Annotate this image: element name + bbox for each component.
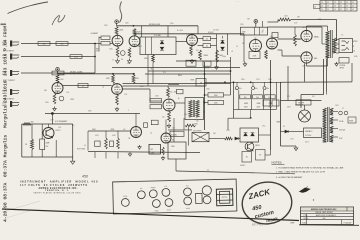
pen stroke above V1: [120, 2, 122, 23]
wire rect top: [304, 105, 306, 110]
svg-text:........: ........: [236, 1, 240, 3]
wire ch1 input top: [21, 43, 95, 45]
svg-text:VOL: VOL: [96, 51, 99, 53]
pen speck: [313, 199, 314, 200]
triode V7 driver: [250, 40, 262, 52]
wire mixer rail A: [204, 62, 206, 130]
ground G5: [168, 124, 170, 126]
capacitor C4 coupling: [203, 44, 211, 48]
resistor R24 grid upper: [294, 35, 297, 47]
resistor R20 plate V5: [167, 88, 170, 98]
wire power ground run: [281, 145, 297, 147]
svg-text:40+: 40+: [267, 88, 270, 90]
wire heater right: [72, 124, 74, 159]
svg-text:2. WALL C AND RESISTOR VALUES: 2. WALL C AND RESISTOR VALUES TOL 10% 1/…: [276, 170, 325, 173]
wire filter drop: [250, 110, 252, 118]
component box DI: [170, 131, 184, 136]
resistor R5b grid lower: [101, 42, 110, 46]
capacitor C1 bypass: [121, 51, 126, 56]
svg-text:2.7: 2.7: [112, 60, 114, 62]
triode V1b: [129, 36, 140, 47]
svg-text:VOL: VOL: [186, 185, 189, 187]
resistor R12 tone: [216, 50, 219, 62]
wire zener to rail: [259, 134, 271, 136]
resistor R41 cathode V6b: [162, 147, 164, 155]
svg-text:TITLE: TITLE: [304, 215, 308, 217]
triode V2: [187, 35, 198, 46]
wire fs vertical: [188, 127, 190, 145]
resistor R14 plate V4a: [112, 75, 115, 84]
svg-text:AMPLIFIER SCHEMATIC: AMPLIFIER SCHEMATIC: [316, 214, 337, 217]
wire mix row 3: [123, 83, 231, 85]
ground bus ch1: [112, 67, 240, 69]
svg-text:28: 28: [327, 9, 329, 11]
triode V3: [52, 83, 63, 94]
svg-text:1MEG: 1MEG: [204, 55, 209, 57]
svg-text:1/2 6SL7: 1/2 6SL7: [213, 30, 219, 32]
svg-text:FOOT SW: FOOT SW: [77, 149, 85, 151]
wire trem feed: [168, 129, 192, 131]
rectifier V11 GZ34: [299, 110, 311, 122]
voltage table top right: [320, 1, 357, 12]
wire mix row 4: [123, 85, 205, 87]
resistor R10 cathode V2: [190, 46, 193, 56]
svg-text:28: 28: [327, 6, 329, 8]
pen scribble top-left: [8, 2, 49, 14]
component box aux1: [263, 100, 270, 106]
wire ch1 input inst: [21, 72, 95, 74]
wire B+ feed: [205, 81, 281, 83]
svg-text:28: 28: [352, 9, 354, 11]
diode CR2: [160, 47, 164, 50]
component box driver row: [241, 27, 268, 35]
svg-text:1. VOLTAGES READ WITH A VTVM T: 1. VOLTAGES READ WITH A VTVM TO GROUND, …: [276, 166, 344, 169]
svg-text:243 1016 P.04: 243 1016 P.04: [2, 39, 8, 76]
wire grid lower 7591: [278, 49, 283, 51]
resistor R22 mixer: [208, 93, 224, 97]
ground G12b: [139, 145, 141, 147]
svg-text:2N109: 2N109: [255, 145, 260, 147]
resistor R13 plate V3: [56, 75, 59, 83]
box intensity pot: [168, 142, 186, 159]
resistor R9 cathode V1b: [128, 48, 131, 58]
capacitor C6 bypass V3: [59, 96, 64, 101]
svg-text:MODEL 450HD: MODEL 450HD: [70, 72, 83, 74]
box int: [151, 120, 158, 125]
svg-text:16: 16: [353, 51, 355, 53]
pen ellipse note: [240, 179, 294, 226]
wire plate bus ch1: [117, 25, 198, 27]
diode CR3: [221, 41, 225, 44]
svg-text:28: 28: [340, 2, 342, 4]
svg-text:350: 350: [127, 63, 130, 65]
supply terminal ch2: [56, 68, 60, 72]
svg-text:470: 470: [196, 50, 199, 52]
wire heater verticals: [21, 124, 23, 157]
capacitor C12 phase: [110, 141, 114, 147]
wire OT lead A: [323, 59, 325, 95]
pentode V5: [163, 99, 175, 111]
transformer T2 secondary: [333, 38, 336, 53]
wire mix row 2: [145, 73, 231, 75]
ground V1b: [129, 59, 131, 61]
wire box out: [176, 41, 187, 43]
wire pot down: [175, 159, 177, 171]
jack foot switch: [192, 133, 209, 142]
triode V8 driver: [267, 38, 278, 49]
svg-text:P-44-037: P-44-037: [344, 223, 352, 225]
wire long bottom run: [176, 171, 295, 174]
resistor R28 phase: [105, 131, 107, 138]
wire filter bottom: [234, 109, 277, 111]
knob 7: [184, 197, 192, 205]
svg-text:LINDEN, NEW JERSEY: LINDEN, NEW JERSEY: [315, 212, 334, 214]
pentode V10 7591 lower: [301, 52, 312, 63]
knob 6: [184, 188, 192, 196]
resistor R11 tone: [199, 50, 202, 60]
svg-text:FROM: FROM: [2, 26, 8, 37]
triode V4: [112, 84, 123, 95]
knob fuse: [121, 198, 129, 206]
svg-text:08:37A Margulis: 08:37A Margulis: [2, 135, 8, 177]
resistor R7 plate V1b: [133, 29, 136, 36]
ground G1: [191, 59, 193, 61]
svg-text:MODEL: MODEL: [304, 218, 309, 220]
svg-text:.02: .02: [206, 38, 208, 40]
svg-text:450: 450: [323, 218, 326, 220]
svg-text:28: 28: [340, 6, 342, 8]
svg-text:900: 900: [256, 97, 259, 99]
wire grid net: [95, 43, 101, 45]
svg-text:470 KV: 470 KV: [208, 32, 214, 34]
supply terminal driver: [254, 20, 258, 24]
wire driver bottom: [243, 34, 245, 62]
svg-text:28: 28: [334, 6, 336, 8]
ground G11: [295, 146, 297, 148]
svg-text:SPEED: SPEED: [240, 165, 246, 167]
svg-text:FUSE: FUSE: [349, 120, 353, 122]
svg-text:.02: .02: [231, 51, 233, 53]
capacitor C3 coupling: [203, 37, 211, 41]
ground G13: [72, 159, 74, 161]
wire V5 out: [175, 102, 185, 104]
resistor R25 cathode driver: [249, 52, 260, 59]
svg-text:25MF: 25MF: [70, 99, 74, 101]
triode V6b oscillator: [161, 133, 171, 143]
svg-text:60 CY: 60 CY: [305, 142, 309, 144]
pot box mix: [196, 79, 206, 87]
resistor R33 heater: [23, 123, 31, 126]
svg-text:28: 28: [340, 9, 342, 11]
resistor R29 phase: [117, 131, 119, 138]
wire fs right: [209, 138, 225, 140]
svg-text:BST PRO: BST PRO: [252, 224, 263, 227]
resistor R17 cathode V4: [116, 95, 119, 106]
resistor R31: [242, 152, 252, 163]
svg-text:5Y3: 5Y3: [287, 96, 290, 98]
capacitor C5: [78, 84, 88, 88]
jack J4 mic2 input: [10, 89, 12, 95]
resistor R27 feedback: [278, 18, 291, 21]
svg-text:500pf: 500pf: [222, 56, 226, 58]
svg-text:ON-OFF SW: ON-OFF SW: [193, 131, 202, 133]
resistor R40: [225, 137, 233, 140]
wire heater top: [22, 123, 73, 125]
svg-text:VOL: VOL: [164, 186, 167, 188]
svg-text:28: 28: [321, 9, 323, 11]
svg-text:INT: INT: [151, 149, 154, 151]
svg-text:TREB: TREB: [155, 210, 159, 212]
transformer T2 output primary: [326, 31, 330, 58]
wire filter return: [228, 117, 251, 119]
terminal heater supply: [51, 112, 54, 115]
svg-text:2: 2: [128, 110, 129, 112]
svg-text:D2: D2: [283, 126, 285, 128]
wire mix row 1: [148, 70, 231, 72]
resistor R3 220K: [70, 55, 82, 59]
svg-text:3. ★ DENOTES IN MAGNET: 3. ★ DENOTES IN MAGNET: [276, 176, 303, 179]
svg-text:6B6: 6B6: [314, 58, 317, 60]
svg-text:28: 28: [327, 2, 329, 4]
table side cell: [314, 5, 321, 9]
ground G3: [54, 107, 56, 109]
resistor R19: [150, 105, 162, 109]
wire feedback: [291, 19, 337, 21]
diode CR6 zener: [244, 133, 248, 136]
svg-text:243 1016: 243 1016: [2, 80, 8, 103]
wire plate bus lower: [134, 33, 244, 35]
wire coupling V3-V4: [63, 85, 112, 87]
svg-text:.02: .02: [82, 85, 84, 87]
svg-text:TONE: TONE: [205, 68, 209, 70]
component box small: [272, 33, 278, 38]
sheet border under title block: [299, 224, 359, 227]
power transformer top view: [216, 189, 233, 206]
pentode V9 7591 upper: [301, 30, 312, 41]
wire mixer top: [176, 60, 231, 62]
wire x262 stub: [261, 21, 263, 27]
capacitor C9 filter: [252, 87, 255, 90]
svg-text:.05: .05: [123, 129, 125, 131]
svg-text:.02: .02: [102, 87, 104, 89]
svg-text:AMPEG ELECTRONICS INC.: AMPEG ELECTRONICS INC.: [311, 208, 337, 211]
tube socket big: [202, 186, 211, 195]
wire secondary taps: [336, 39, 339, 41]
pot box 1: [186, 60, 196, 66]
wire driver top right: [268, 21, 279, 23]
wire input junction vertical: [94, 44, 96, 74]
wire B+ center tap: [321, 27, 323, 44]
svg-text:117 VOLTS 60 CYCLES 280WATTS: 117 VOLTS 60 CYCLES 280WATTS: [20, 184, 87, 187]
jack J3 instrument input: [10, 70, 12, 76]
wire plate V5 top: [167, 86, 169, 88]
pot box osc: [149, 145, 161, 155]
resistor R21 cathode V5: [168, 112, 171, 123]
wire vertical x198: [197, 26, 199, 34]
network box tone ch1: [140, 37, 176, 55]
title block table: [301, 207, 354, 225]
svg-text:500: 500: [196, 121, 199, 123]
wire plate bus ch2: [58, 73, 136, 75]
wire osc bus: [88, 130, 131, 132]
resistor R8 cathode V1a: [116, 47, 119, 58]
fuse box: [348, 117, 356, 123]
capacitor C7: [177, 89, 184, 93]
wire drop x148: [147, 55, 149, 87]
svg-text:TREB: TREB: [190, 80, 194, 82]
diode CR4: [221, 47, 225, 50]
svg-text:450: 450: [31, 121, 34, 123]
wire filter rail left: [233, 82, 235, 118]
resistor R35 below box: [152, 55, 155, 63]
resistor R36 filter: [240, 95, 251, 99]
wire bias drop: [287, 66, 289, 101]
resistor R32: [256, 150, 266, 161]
knob 2: [149, 190, 157, 198]
resistor R4 68K: [52, 71, 64, 75]
transformer T3 primary: [323, 108, 327, 142]
resistor R1 68K: [38, 42, 50, 46]
transformer T3 secondary windings: [330, 108, 333, 115]
svg-text:6.3V FILAMENT: 6.3V FILAMENT: [55, 120, 67, 123]
svg-text:285: 285: [254, 38, 257, 40]
svg-text:117V 60: 117V 60: [305, 135, 311, 137]
svg-text:MODEL/450K: MODEL/450K: [149, 24, 161, 26]
knob 1: [137, 191, 145, 199]
wire osc verticals: [173, 118, 175, 142]
wire vib rail: [270, 60, 272, 150]
svg-text:28: 28: [346, 9, 348, 11]
speaker jack box: [339, 39, 353, 53]
pot box 2: [203, 61, 211, 66]
supply terminal ch1: [115, 20, 119, 24]
triode V1a: [112, 35, 123, 46]
svg-text:Margulis: Margulis: [2, 105, 8, 128]
capacitor C14 electrolytic: [40, 139, 45, 150]
wire top power: [281, 100, 322, 102]
svg-text:NOTES:: NOTES:: [272, 161, 283, 165]
resistor R34 5K: [31, 139, 34, 150]
svg-text:25: 25: [236, 46, 238, 48]
svg-text:VIB: VIB: [213, 133, 216, 135]
wire OT lead B: [326, 59, 328, 92]
svg-text:4-20-98 08:37A: 4-20-98 08:37A: [2, 182, 8, 222]
jack ext speaker: [339, 58, 349, 64]
wire left column power: [280, 82, 282, 146]
jack J2 LOW input: [10, 54, 12, 60]
wire OT leads run: [301, 94, 324, 96]
tube socket small: [203, 196, 211, 204]
diode CR7 zener: [251, 133, 255, 136]
wire B+ bus: [268, 26, 323, 28]
resistor R15 plate V4b: [132, 75, 135, 84]
svg-text:450: 450: [82, 175, 88, 179]
AC input box 117V: [304, 128, 322, 138]
triode V6a oscillator: [131, 127, 142, 138]
svg-text:D57C1: D57C1: [56, 130, 61, 132]
resistor R23 mixer: [208, 100, 224, 104]
resistor R38 filter: [265, 95, 276, 99]
wire tone rows: [198, 38, 204, 40]
knob 3: [162, 188, 170, 196]
resistor R5 grid upper: [101, 36, 110, 40]
transistor Q2 bias: [43, 128, 54, 139]
svg-text:28: 28: [346, 6, 348, 8]
resistor R39 270K: [185, 124, 196, 127]
capacitor C2 in box: [145, 37, 147, 55]
svg-text:ON-OFF: ON-OFF: [298, 103, 304, 105]
svg-text:50MF: 50MF: [46, 143, 50, 145]
ground G7: [336, 62, 338, 64]
transistor Q1: [245, 142, 254, 151]
svg-text:40MF: 40MF: [244, 103, 248, 105]
wire drop x153: [152, 63, 154, 84]
wire T1 out bottom: [204, 111, 205, 113]
ground G12: [129, 152, 131, 154]
transformer T2 core: [330, 30, 332, 58]
knob 4: [152, 200, 160, 208]
jack J5 low input: [10, 101, 12, 107]
network box vibrato: [240, 128, 259, 142]
wire osc ground bus: [88, 152, 200, 153]
svg-text:50: 50: [84, 145, 86, 147]
diode CR8: [235, 137, 238, 140]
svg-text:900: 900: [244, 97, 247, 99]
svg-text:+150 AMP: +150 AMP: [90, 32, 99, 35]
wire plate upper: [306, 26, 308, 30]
pen squiggle: [52, 15, 65, 25]
wire into box: [141, 26, 143, 37]
wire stub osc1: [94, 152, 96, 158]
wire T3 taps: [333, 111, 338, 113]
fax dash mark: [1, 24, 7, 26]
ground G2: [216, 65, 218, 67]
wire T1 out top: [204, 100, 205, 102]
svg-text:28: 28: [334, 9, 336, 11]
jack J1 HIGH input: [10, 41, 12, 47]
ground V1a: [117, 59, 119, 61]
svg-text:28: 28: [352, 2, 354, 4]
wire vertical x216: [216, 34, 218, 65]
resistor R16 cathode V3: [53, 94, 56, 105]
wire filter verticals: [238, 90, 240, 110]
wire stub osc3: [117, 152, 119, 158]
transformer T3 core: [327, 107, 329, 142]
fuse F1: [339, 111, 343, 115]
wire V6b top: [165, 120, 167, 134]
svg-text:VIBRATO: VIBRATO: [305, 130, 313, 133]
svg-text:28: 28: [321, 6, 323, 8]
ground G6: [244, 62, 246, 64]
svg-text:FUSE: FUSE: [123, 196, 127, 198]
resistor R18 grid V5: [150, 99, 162, 103]
svg-text:28: 28: [334, 2, 336, 4]
wire heater bottom: [22, 156, 73, 158]
capacitor C13: [144, 123, 148, 128]
pen doodle plane: [300, 188, 311, 193]
capacitor C10 filter: [263, 87, 266, 90]
pilot lamp: [344, 111, 348, 115]
svg-text:INT: INT: [140, 188, 143, 190]
switch box on-off: [296, 100, 311, 105]
socket rect: [196, 193, 203, 203]
ground G12c: [162, 156, 164, 158]
wire V4 to V5: [123, 88, 151, 90]
wire speaker common: [281, 81, 353, 83]
diode CR1: [160, 41, 164, 44]
wire diode column: [222, 36, 224, 39]
ground G4: [116, 107, 118, 109]
